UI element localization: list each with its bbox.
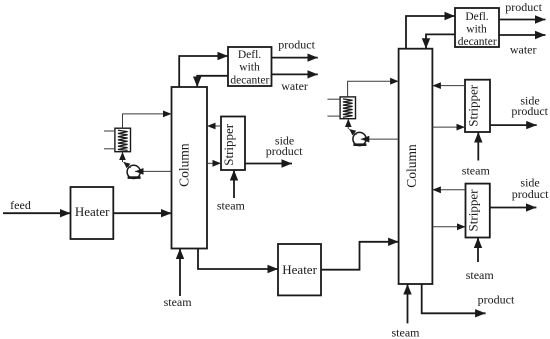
label steam (C1) (164, 295, 193, 309)
wire heater H1 to column C1 (113, 212, 171, 214)
wire column C1 overhead vapor to deflegmator D1 (179, 56, 228, 87)
label steam (S3) (466, 268, 495, 282)
wire HX1 coolant stub lower (104, 148, 115, 150)
label steam (S1) (217, 199, 246, 213)
wire HX2 outlet to column C2 (348, 81, 399, 97)
wire steam to column C1 (179, 249, 181, 297)
svg-text:Stripper: Stripper (466, 189, 481, 232)
stripper S2 (465, 80, 490, 132)
svg-text:water: water (510, 42, 537, 56)
svg-text:Column: Column (177, 143, 192, 187)
pump P2 (353, 132, 367, 146)
label steam (S2) (462, 163, 491, 177)
wire HX2 coolant stub lower (327, 115, 340, 117)
svg-text:Stripper: Stripper (466, 84, 481, 127)
label steam (C2) (392, 326, 421, 339)
label feed (10, 198, 31, 212)
wire HX1 coolant stub upper (104, 130, 115, 132)
svg-text:Column: Column (404, 144, 419, 188)
svg-text:decanter: decanter (458, 36, 497, 48)
svg-text:product: product (505, 0, 542, 14)
deflegmator D2 (455, 8, 499, 48)
stripper S3 (466, 184, 490, 238)
svg-text:steam: steam (164, 295, 193, 309)
svg-text:product: product (278, 37, 315, 51)
svg-text:Heater: Heater (282, 262, 317, 277)
svg-text:Heater: Heater (75, 204, 110, 219)
column C1 (172, 87, 208, 249)
svg-text:steam: steam (466, 268, 495, 282)
svg-text:with: with (239, 62, 260, 74)
wire column C2 overhead vapor to deflegmator D2 (406, 16, 455, 49)
wire D2 product out (499, 19, 546, 21)
wire reflux D2 to column C2 (426, 34, 455, 48)
wire steam to stripper S3 (477, 238, 479, 263)
stripper S1 (221, 117, 245, 171)
wire reflux D1 to column C1 (197, 76, 228, 87)
label side product (S2) (511, 94, 548, 118)
svg-text:feed: feed (10, 198, 31, 212)
wire D2 water out (499, 34, 546, 36)
label product (C2 bottoms) (478, 292, 515, 306)
wire S2 side product out (490, 124, 537, 126)
wire HX2 coolant stub upper (327, 98, 340, 100)
wire column C2 to stripper S2 feed (432, 126, 465, 128)
svg-text:Stripper: Stripper (221, 123, 236, 166)
wire heater H2 to column C2 (321, 242, 399, 270)
wire pump P2 to HX2 (348, 119, 356, 135)
wire D1 water out (272, 73, 318, 75)
wire steam to stripper S1 (233, 170, 235, 198)
svg-text:Defl.: Defl. (238, 49, 261, 61)
heat exchanger HX2 (340, 97, 355, 119)
label water (D1) (281, 79, 308, 93)
wire stripper S3 vapor to column C2 (432, 189, 465, 191)
svg-text:steam: steam (217, 199, 246, 213)
label product (D2) (505, 0, 542, 14)
label product (D1) (278, 37, 315, 51)
label side product (S1) (266, 134, 303, 158)
wire steam to stripper S2 (477, 132, 479, 161)
wire column C1 to pump P1 inlet (135, 170, 172, 172)
wire S1 side product out (245, 163, 292, 165)
heater H2 (278, 244, 321, 295)
wire column C2 to pump P2 inlet (361, 138, 399, 140)
wire stripper S1 vapor to column C1 (207, 125, 221, 127)
wire D1 product out (272, 57, 318, 59)
wire stripper S2 vapor to column C2 (432, 85, 465, 87)
label water (D2) (510, 42, 537, 56)
wire steam to column C2 (407, 284, 409, 323)
deflegmator D1 (228, 47, 272, 86)
wire feed to heater H1 (3, 212, 71, 214)
svg-text:product: product (266, 144, 303, 158)
svg-text:product: product (478, 292, 515, 306)
pump P1 (127, 165, 141, 179)
column C2 (399, 49, 433, 284)
label side product (S3) (512, 175, 549, 201)
wire column C2 bottoms product out (422, 284, 486, 313)
wire S3 side product out (490, 207, 537, 209)
wire HX1 outlet to column C1 (123, 114, 172, 128)
wire column C1 bottoms to heater H2 (198, 249, 278, 270)
wire column C2 to stripper S3 feed (432, 226, 465, 228)
svg-text:with: with (466, 24, 487, 36)
svg-text:steam: steam (462, 163, 491, 177)
svg-text:product: product (511, 104, 548, 118)
wire column C1 to stripper S1 feed (207, 162, 221, 164)
heater H1 (71, 187, 114, 239)
svg-text:water: water (281, 79, 308, 93)
svg-text:Defl.: Defl. (465, 11, 488, 23)
svg-text:product: product (512, 187, 549, 201)
heat exchanger HX1 (115, 128, 131, 152)
svg-text:decanter: decanter (230, 74, 269, 86)
svg-text:steam: steam (392, 326, 421, 339)
wire pump P1 to HX1 (123, 152, 131, 168)
